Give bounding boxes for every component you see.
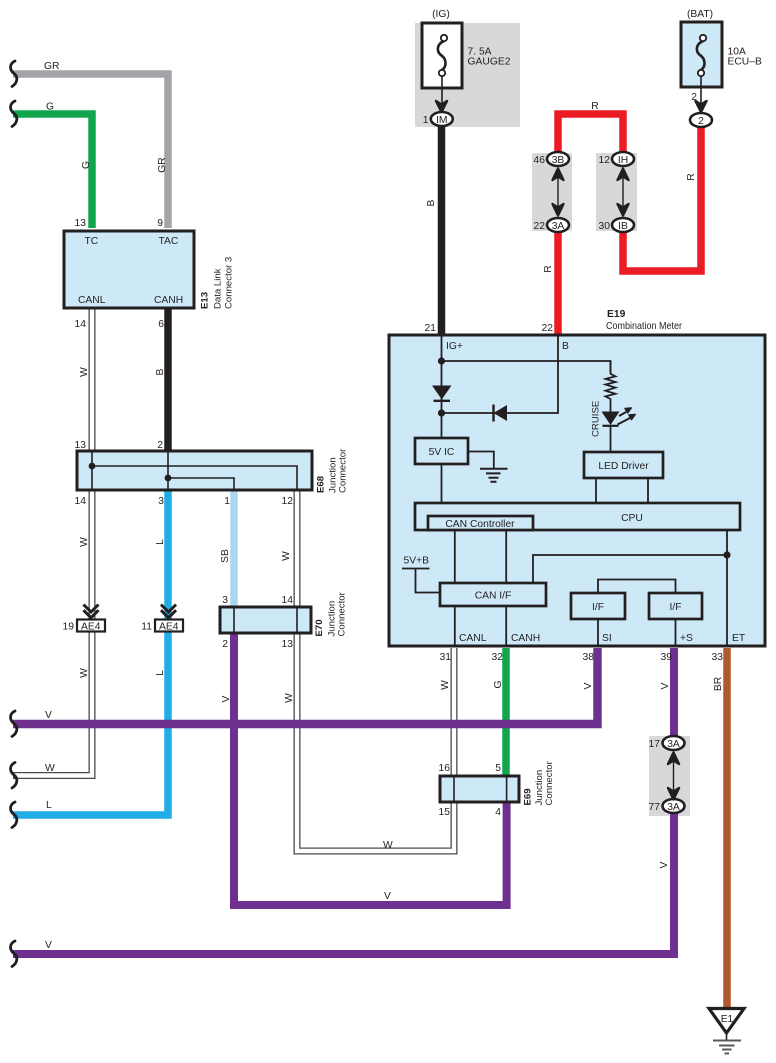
svg-text:G: G [81, 161, 92, 169]
wire W white below E68 to break [13, 488, 92, 776]
svg-text:Data Link: Data Link [213, 268, 224, 309]
wire B black E13 to E68 [164, 300, 172, 453]
svg-text:E1: E1 [721, 1014, 734, 1025]
E70 internal line W [296, 607, 298, 633]
E69 internal line G-V [506, 776, 508, 802]
svg-text:CAN I/F: CAN I/F [475, 591, 512, 602]
svg-text:TC: TC [85, 236, 99, 247]
wires controller to CAN I/F [455, 530, 506, 646]
svg-text:L: L [46, 800, 52, 811]
svg-text:W: W [284, 693, 295, 703]
fuse element BAT [697, 41, 705, 70]
arrows between 3A and 3A [673, 756, 675, 793]
E69 internal line W [453, 776, 455, 802]
svg-text:14: 14 [282, 595, 294, 606]
svg-text:3B: 3B [552, 155, 565, 166]
wires I/F to pins [598, 619, 676, 646]
E68 internal wire left [91, 451, 93, 490]
connector ovals IH/IB [612, 152, 634, 166]
I/F bracket [598, 580, 676, 594]
svg-text:Connector: Connector [544, 760, 555, 805]
break symbol L [11, 802, 17, 828]
wire V meter pin39 to 3A(17) [670, 648, 678, 743]
chevron AE4 no.19 [84, 605, 99, 618]
svg-text:6: 6 [158, 319, 164, 330]
wire CPU to ET and 5V+B line [726, 530, 728, 646]
svg-text:+S: +S [680, 633, 693, 644]
svg-text:CPU: CPU [621, 513, 643, 524]
terminal oval 2 [690, 113, 712, 127]
svg-text:CRUISE: CRUISE [591, 401, 602, 437]
I/F box right [649, 593, 702, 619]
svg-text:E68: E68 [316, 475, 327, 493]
svg-text:V: V [221, 695, 232, 702]
fuse box IG [422, 23, 462, 88]
E68 internal branch to pin1 [168, 478, 234, 490]
connector shading IH/IB [596, 153, 637, 231]
svg-text:R: R [543, 265, 554, 272]
connector shading 3A/3A [649, 736, 690, 816]
connector AE4 11 [155, 620, 183, 632]
svg-text:LED Driver: LED Driver [598, 461, 649, 472]
E13 box Data Link Connector 3 [64, 231, 194, 308]
svg-text:E70: E70 [314, 619, 325, 636]
wire V meter pin38 down and left to break (horizontal crossing others) [13, 648, 598, 724]
svg-text:E69: E69 [523, 788, 534, 805]
resistor [606, 361, 616, 412]
svg-text:15: 15 [439, 807, 451, 818]
svg-text:TAC: TAC [159, 236, 179, 247]
wire W white E13 to E68 [89, 300, 96, 453]
arrows between IH and IB [622, 172, 624, 212]
svg-text:G: G [46, 102, 54, 113]
wire BR meter pin33 to ground E1 [723, 648, 731, 1009]
svg-text:13: 13 [75, 440, 87, 451]
fuse box BAT [681, 22, 722, 87]
wire W E70 pin13 down right up to E69 pin15 [297, 631, 454, 851]
wire G green [13, 114, 92, 228]
svg-text:AE4: AE4 [159, 622, 179, 633]
svg-text:BR: BR [713, 677, 724, 691]
svg-text:11: 11 [141, 622, 152, 633]
svg-text:5V IC: 5V IC [429, 447, 455, 458]
svg-text:31: 31 [440, 652, 452, 663]
wire SB E68 to E70 [230, 488, 238, 609]
svg-text:5: 5 [495, 763, 501, 774]
svg-text:ECU–B: ECU–B [728, 57, 762, 68]
wire IG+ down [441, 335, 443, 438]
svg-text:B: B [155, 368, 166, 375]
svg-text:GR: GR [157, 157, 168, 172]
svg-text:21: 21 [425, 323, 437, 334]
arrow down IM [436, 101, 447, 112]
svg-text:4: 4 [495, 807, 501, 818]
wire to ground [468, 452, 494, 469]
connector ovals 3A/3A bottom [663, 736, 685, 750]
wires LED Driver to CPU [596, 478, 648, 503]
E70 junction connector box [220, 607, 311, 633]
LED [602, 412, 620, 426]
node dot diode junction [438, 409, 445, 416]
fuse element IG [438, 41, 446, 70]
wire W E68 pin12 to E70 pin14 [294, 488, 301, 609]
svg-text:13: 13 [75, 218, 87, 229]
svg-text:V: V [45, 940, 52, 951]
svg-text:IB: IB [618, 221, 628, 232]
CPU box [415, 503, 740, 530]
svg-text:19: 19 [63, 622, 75, 633]
svg-text:2: 2 [222, 639, 228, 650]
connector ovals 3B/3A [547, 152, 569, 166]
svg-text:CANL: CANL [459, 633, 487, 644]
svg-text:AE4: AE4 [81, 622, 101, 633]
svg-text:32: 32 [492, 652, 504, 663]
svg-text:3A: 3A [667, 802, 680, 813]
link fuse to IM [441, 76, 443, 106]
E69 junction connector box [440, 776, 519, 802]
svg-text:22: 22 [542, 323, 554, 334]
svg-text:W: W [45, 763, 55, 774]
svg-text:B: B [562, 341, 569, 352]
svg-text:GR: GR [44, 61, 59, 72]
svg-text:5V+B: 5V+B [404, 556, 430, 567]
wire L blue below E68 to break [13, 488, 168, 815]
wire R red: IH up, left, down to 3B [558, 114, 623, 156]
svg-text:V: V [660, 682, 671, 689]
wire GR horizontal+vertical [13, 74, 168, 228]
link fuse to oval 2 [700, 76, 702, 106]
svg-text:(IG): (IG) [432, 9, 450, 20]
svg-text:16: 16 [439, 763, 451, 774]
break symbol V bottom [11, 941, 17, 967]
wire G meter pin32 to E69 pin5 [502, 648, 510, 778]
connector AE4 19 [77, 620, 105, 632]
svg-text:12: 12 [282, 496, 294, 507]
svg-text:22: 22 [534, 221, 546, 232]
svg-text:1: 1 [423, 115, 429, 126]
svg-text:E13: E13 [200, 292, 211, 309]
combination meter box E19 [389, 335, 765, 646]
svg-text:SB: SB [220, 549, 231, 563]
svg-text:L: L [155, 539, 166, 545]
svg-text:W: W [79, 367, 90, 377]
svg-text:W: W [440, 680, 451, 690]
svg-text:W: W [79, 668, 90, 678]
wire R red: 3A down to meter pin 22 [554, 228, 562, 335]
svg-text:CANH: CANH [154, 295, 183, 306]
svg-text:3A: 3A [552, 221, 565, 232]
wire W meter pin31 to E69 pin16 [451, 648, 458, 778]
svg-text:1: 1 [224, 496, 230, 507]
wire branch to resistor [442, 361, 611, 373]
svg-text:IM: IM [436, 115, 447, 126]
svg-text:IH: IH [618, 155, 628, 166]
svg-text:(BAT): (BAT) [687, 9, 713, 20]
break symbol G [11, 101, 17, 127]
svg-text:3A: 3A [667, 739, 680, 750]
svg-text:I/F: I/F [592, 602, 604, 613]
svg-text:17: 17 [649, 739, 661, 750]
svg-text:3: 3 [222, 595, 228, 606]
svg-text:2: 2 [157, 440, 163, 451]
svg-text:46: 46 [534, 155, 546, 166]
svg-text:13: 13 [282, 639, 294, 650]
svg-text:SI: SI [602, 633, 612, 644]
svg-text:CAN Controller: CAN Controller [445, 519, 515, 530]
svg-text:I/F: I/F [669, 602, 681, 613]
wire V 3A(77) down, bottom run to break [13, 806, 674, 954]
wire B down from pin22 [442, 335, 559, 413]
svg-text:Combination Meter: Combination Meter [606, 321, 682, 332]
svg-text:77: 77 [649, 802, 661, 813]
svg-text:Connector: Connector [338, 448, 349, 493]
svg-text:33: 33 [712, 652, 724, 663]
svg-text:W: W [383, 840, 393, 851]
E68 internal branch to pin12 [92, 466, 297, 490]
svg-text:V: V [659, 861, 670, 868]
ground symbol E1 [709, 1009, 744, 1034]
connector shading 3B/3A [532, 153, 572, 231]
ground symbol [480, 469, 508, 482]
wire V E70 down right to E69 pin4 [234, 631, 507, 905]
chevron AE4 no.11 [161, 605, 176, 618]
LED arrows [618, 412, 631, 425]
svg-text:Connector: Connector [337, 591, 348, 636]
svg-text:W: W [79, 537, 90, 547]
node dot IG+ branch [438, 357, 445, 364]
CAN I/F box [440, 583, 546, 606]
wire R red: BAT oval down, left, up to IB [623, 126, 701, 271]
diode D2 left [494, 405, 508, 421]
svg-text:Connector 3: Connector 3 [224, 257, 235, 309]
svg-text:CANL: CANL [78, 295, 106, 306]
svg-text:30: 30 [599, 221, 611, 232]
svg-text:V: V [45, 710, 52, 721]
CAN Controller box [428, 516, 533, 530]
arrow down BAT [696, 101, 707, 112]
I/F box left [571, 593, 625, 619]
break symbol W [11, 763, 17, 789]
break symbol V [11, 711, 17, 737]
svg-text:3: 3 [158, 496, 164, 507]
svg-text:L: L [155, 670, 166, 676]
svg-text:V: V [384, 891, 391, 902]
svg-text:CANH: CANH [511, 633, 540, 644]
fuse block shading (IG) [415, 23, 520, 127]
5V IC box [415, 438, 468, 464]
svg-text:38: 38 [583, 652, 595, 663]
svg-text:14: 14 [75, 496, 87, 507]
svg-text:9: 9 [157, 218, 163, 229]
svg-text:V: V [583, 682, 594, 689]
break symbol GR [11, 61, 17, 87]
svg-text:W: W [281, 551, 292, 561]
svg-text:2: 2 [698, 116, 704, 127]
LED Driver box [584, 452, 663, 478]
E68 internal wire black [167, 451, 169, 490]
wire B fuse IM to meter pin 21 [438, 126, 446, 335]
svg-text:IG+: IG+ [446, 341, 463, 352]
svg-text:12: 12 [599, 155, 611, 166]
svg-text:ET: ET [732, 633, 746, 644]
svg-text:R: R [591, 101, 598, 112]
svg-text:14: 14 [75, 319, 87, 330]
E68 junction connector box [77, 451, 312, 490]
diode D1 down [432, 386, 452, 400]
svg-text:B: B [426, 199, 437, 206]
arrows between 3B and 3A [557, 172, 559, 212]
E70 internal line SB-V [233, 607, 235, 633]
wire 5VIC to CPU [441, 464, 443, 503]
svg-text:39: 39 [661, 652, 673, 663]
terminal oval IM pin1 [431, 112, 453, 126]
svg-text:GAUGE2: GAUGE2 [468, 57, 511, 68]
svg-text:E19: E19 [607, 309, 626, 320]
svg-text:G: G [493, 680, 504, 688]
svg-text:R: R [686, 173, 697, 180]
